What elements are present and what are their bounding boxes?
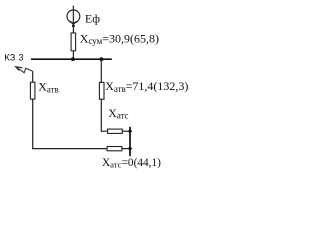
wire bus to Xatv right [100, 59, 102, 82]
svg-text:КЗ 3: КЗ 3 [4, 53, 23, 63]
bus wire (horizontal) [31, 58, 112, 60]
svg-text:Хатв=71,4(132,3): Хатв=71,4(132,3) [105, 79, 188, 94]
wire Xatv right down to Xatc1 row [101, 99, 107, 131]
fault lightning arrow КЗ [16, 67, 33, 73]
junction dot node B [99, 57, 103, 61]
wire Xsum to bus [72, 51, 74, 59]
EMF source U1 circle [67, 10, 80, 23]
value label Хатс=0(44,1) [102, 157, 161, 170]
value label Xсум=30,9(65,8) [80, 31, 159, 46]
junction dot node A [71, 57, 75, 61]
label КЗ 3 [4, 53, 23, 63]
value label Хатв=71,4(132,3) [105, 79, 188, 94]
junction dot node C [128, 129, 132, 134]
label Еф [85, 12, 100, 26]
svg-text:Еф: Еф [85, 12, 100, 26]
resistor Xatv (left) [30, 82, 35, 99]
wire Xatc2 to right rail [122, 148, 130, 150]
svg-text:Xсум=30,9(65,8): Xсум=30,9(65,8) [80, 31, 159, 46]
wire fault stub to Xatv left [32, 71, 34, 82]
right rail wire (vertical) [129, 127, 131, 156]
resistor Xsum [71, 33, 76, 51]
resistor Xatv (right) [99, 82, 104, 99]
resistor Xatc2 (horizontal, bottom) [107, 147, 122, 151]
svg-text:Хатс=0(44,1): Хатс=0(44,1) [102, 157, 161, 170]
wire source to Xsum [72, 23, 74, 34]
svg-text:Хатв: Хатв [38, 80, 58, 95]
label Хатс [108, 106, 128, 121]
wire Xatc1 to right rail [122, 130, 130, 132]
label Хатв (left) [38, 80, 58, 95]
EMF source arrow (shaft + head) [70, 6, 76, 28]
svg-text:Хатс: Хатс [108, 106, 128, 121]
resistor Xatc1 (horizontal, top) [108, 129, 123, 133]
wire Xatv left down and right to Xatc2 [33, 99, 107, 149]
junction dot node D [128, 146, 132, 151]
